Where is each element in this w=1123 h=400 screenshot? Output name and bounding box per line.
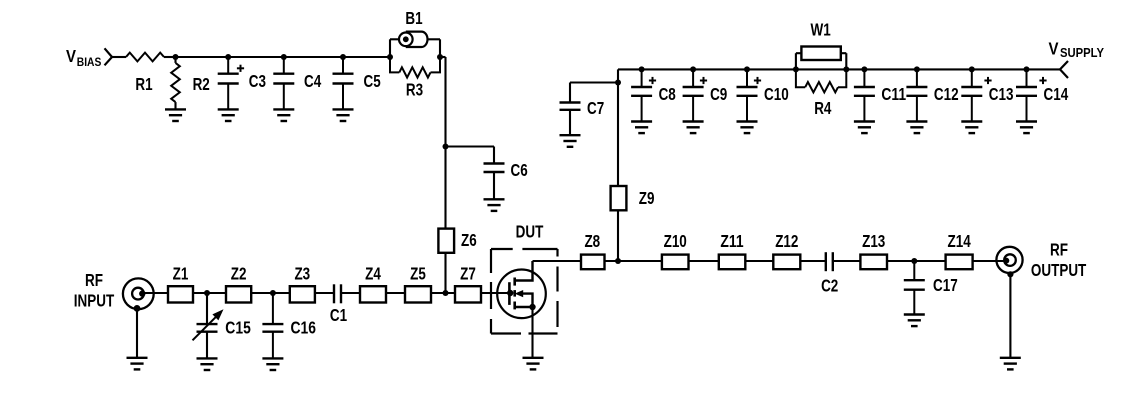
transmission line Z3 — [290, 286, 315, 302]
transmission line Z11 — [719, 255, 746, 270]
label C17 — [933, 275, 958, 295]
capacitor C9 — [683, 69, 704, 133]
capacitor C8 — [631, 69, 652, 133]
capacitor C5 — [333, 57, 354, 121]
wire supply vertical down to output line — [617, 69, 619, 261]
svg-text:Z8: Z8 — [584, 231, 600, 251]
label DUT — [516, 222, 544, 242]
svg-text:Z12: Z12 — [775, 231, 798, 251]
ground RF INPUT — [127, 358, 148, 370]
wire RF INPUT shield to ground — [134, 305, 141, 358]
node junction C16 — [270, 290, 276, 296]
label Z1 — [173, 263, 189, 283]
wire source to ground — [531, 307, 533, 358]
svg-text:C17: C17 — [933, 275, 958, 295]
wire Z12 to C2 — [800, 260, 826, 262]
node junction source — [529, 304, 535, 310]
transistor Q1 drain — [515, 261, 533, 281]
node junction C13 — [969, 66, 975, 72]
capacitor C14 — [1016, 69, 1037, 133]
svg-text:C8: C8 — [659, 84, 676, 104]
label R1 — [135, 74, 152, 94]
wire Z2 to Z3 — [251, 292, 290, 294]
wire W1 left leg — [796, 53, 802, 69]
svg-text:V: V — [1049, 39, 1059, 59]
label Z3 — [294, 263, 310, 283]
svg-text:C7: C7 — [587, 98, 604, 118]
wire Z13 to Z14 — [887, 260, 946, 262]
svg-text:R4: R4 — [814, 98, 831, 118]
variable capacitor C15 — [193, 293, 224, 358]
wire drain to Z8 — [533, 260, 582, 262]
ferrite bead B1 — [399, 32, 428, 47]
resistor R2 — [171, 57, 180, 109]
capacitor C10 — [737, 69, 758, 133]
svg-text:R3: R3 — [406, 80, 423, 100]
label C16 — [291, 318, 317, 338]
wire Z10 to Z11 — [689, 260, 719, 262]
node junction C12 — [914, 66, 920, 72]
svg-text:C9: C9 — [710, 84, 727, 104]
wire Z14 to RF OUTPUT — [973, 260, 1007, 262]
node junction C9 — [690, 66, 696, 72]
capacitor C4 — [273, 57, 294, 121]
transmission line Z2 — [226, 286, 251, 302]
transmission line Z5 — [405, 286, 431, 302]
label Z9 — [639, 188, 655, 208]
polarity plus C13 — [984, 77, 991, 84]
wire to C6 — [446, 145, 495, 147]
ground C3 — [0, 0, 1, 1]
svg-text:Z10: Z10 — [664, 231, 687, 251]
DUT dashed box — [491, 249, 558, 334]
transmission line Z12 — [773, 255, 800, 270]
ground RF OUTPUT — [1000, 358, 1021, 370]
node junction C14 — [1024, 66, 1030, 72]
capacitor C13 — [961, 69, 982, 133]
node junction C17 — [911, 258, 917, 264]
label C7 — [587, 98, 604, 118]
wire Z8 to Z10 — [605, 260, 662, 262]
wire Z1 to Z2 — [193, 292, 226, 294]
wire Z4 to Z5 — [386, 292, 405, 294]
transmission line Z9 — [611, 186, 627, 210]
terminal V_SUPPLY chevron — [1060, 61, 1068, 78]
transmission line Z8 — [581, 255, 605, 270]
capacitor C7 — [560, 83, 581, 147]
label R3 — [406, 80, 423, 100]
label C3 — [249, 71, 266, 91]
svg-text:INPUT: INPUT — [74, 291, 115, 311]
wire bias rail node to B1 — [176, 56, 391, 58]
node junction C5 — [340, 54, 346, 60]
svg-text:C15: C15 — [225, 318, 251, 338]
svg-text:C16: C16 — [291, 318, 317, 338]
node junction C3 — [225, 54, 231, 60]
label RF INPUT — [74, 270, 115, 311]
transmission line Z6 — [438, 229, 454, 253]
node junction Z9 supply feed — [615, 258, 621, 264]
capacitor C16 — [262, 293, 283, 370]
svg-text:C2: C2 — [821, 276, 838, 296]
capacitor C3 — [218, 57, 239, 121]
svg-text:C6: C6 — [511, 160, 528, 180]
wire B1 right leg — [428, 39, 441, 57]
label C13 — [989, 84, 1014, 104]
label C12 — [934, 84, 959, 104]
svg-text:Z14: Z14 — [948, 231, 971, 251]
svg-text:C13: C13 — [989, 84, 1014, 104]
ground DUT source — [523, 358, 544, 370]
label C10 — [764, 84, 789, 104]
svg-text:C4: C4 — [304, 71, 321, 91]
node junction Z6 bias feed — [443, 290, 449, 296]
node junction B1 right — [437, 54, 443, 60]
svg-text:Z5: Z5 — [410, 263, 426, 283]
wire Z3 to C1 — [315, 292, 334, 294]
transistor Q1 channel — [513, 278, 516, 310]
label Z12 — [775, 231, 798, 251]
transistor Q1 body circle — [497, 270, 546, 319]
polarity plus C10 — [754, 77, 761, 84]
wire bias vertical down to RF line — [444, 57, 446, 293]
svg-text:C11: C11 — [881, 84, 906, 104]
terminal V_BIAS input chevron — [105, 48, 113, 65]
label Z14 — [948, 231, 971, 251]
label R2 — [193, 74, 210, 94]
label C8 — [659, 84, 676, 104]
label W1 — [811, 20, 831, 40]
svg-text:C5: C5 — [364, 71, 381, 91]
label C14 — [1044, 84, 1069, 104]
label RF OUTPUT — [1031, 240, 1087, 281]
label Z7 — [460, 263, 476, 283]
svg-text:R2: R2 — [193, 74, 210, 94]
svg-text:C12: C12 — [934, 84, 959, 104]
wire V_BIAS to R1 — [112, 56, 126, 58]
wire Z11 to Z12 — [745, 260, 773, 262]
svg-text:Z2: Z2 — [231, 263, 247, 283]
node junction C11 — [861, 66, 867, 72]
resistor R3 — [390, 57, 440, 78]
capacitor C1 — [334, 284, 341, 303]
svg-text:RF: RF — [1050, 240, 1068, 260]
label Z11 — [720, 231, 743, 251]
wire C2 to Z13 — [833, 260, 861, 262]
svg-text:OUTPUT: OUTPUT — [1031, 260, 1087, 280]
node junction B1 left — [387, 54, 393, 60]
transmission line Z10 — [662, 255, 689, 270]
svg-text:Z3: Z3 — [294, 263, 310, 283]
wire supply rail — [618, 68, 1060, 70]
resistor R1 — [126, 53, 164, 62]
ground C15 — [197, 358, 218, 370]
label Z5 — [410, 263, 426, 283]
label Z13 — [862, 231, 885, 251]
transmission line Z4 — [360, 286, 386, 302]
wire R1 to node — [164, 56, 176, 58]
label C6 — [511, 160, 528, 180]
wire to C7 — [570, 81, 618, 83]
node junction C8 — [639, 66, 645, 72]
svg-text:Z4: Z4 — [365, 263, 381, 283]
label Z4 — [365, 263, 381, 283]
capacitor C17 — [904, 261, 925, 326]
wire RF OUTPUT shield to ground — [1007, 271, 1013, 358]
capacitor C2 — [826, 252, 833, 271]
svg-text:C1: C1 — [330, 305, 347, 325]
wire C1 to Z4 — [341, 292, 360, 294]
svg-text:C3: C3 — [249, 71, 266, 91]
transmission line Z7 — [455, 286, 481, 302]
polarity plus C9 — [700, 77, 707, 84]
transmission line Z13 — [860, 255, 887, 270]
svg-text:Z11: Z11 — [720, 231, 743, 251]
node junction gate — [507, 290, 513, 296]
ground R2 — [165, 109, 186, 121]
node junction C15 — [204, 290, 210, 296]
label C5 — [364, 71, 381, 91]
svg-text:DUT: DUT — [516, 222, 544, 242]
capacitor C12 — [906, 69, 927, 133]
svg-text:BIAS: BIAS — [77, 57, 102, 69]
node junction R2 — [173, 54, 179, 60]
jumper W1 — [801, 47, 840, 61]
capacitor C11 — [854, 69, 875, 133]
label B1 — [405, 8, 422, 28]
label V_BIAS — [66, 46, 102, 69]
label C9 — [710, 84, 727, 104]
svg-text:Z13: Z13 — [862, 231, 885, 251]
label Z6 — [461, 230, 477, 250]
node junction C7 branch — [615, 80, 621, 86]
polarity plus C3 — [237, 65, 244, 72]
transistor Q1 body-source tie — [515, 290, 533, 307]
svg-text:SUPPLY: SUPPLY — [1060, 46, 1105, 60]
polarity plus C14 — [1039, 77, 1046, 84]
transmission line Z14 — [946, 255, 973, 270]
connector RF INPUT — [123, 278, 154, 309]
label C15 — [225, 318, 251, 338]
transistor Q1 source — [515, 306, 533, 308]
node junction W1 left — [793, 66, 799, 72]
node junction C6 branch — [443, 144, 449, 150]
wire B1 left leg — [390, 39, 399, 57]
svg-text:Z7: Z7 — [460, 263, 476, 283]
label V_SUPPLY — [1049, 39, 1105, 61]
svg-text:Z9: Z9 — [639, 188, 655, 208]
label R4 — [814, 98, 831, 118]
connector RF OUTPUT — [996, 247, 1022, 273]
svg-text:W1: W1 — [811, 20, 831, 40]
svg-text:Z1: Z1 — [173, 263, 189, 283]
svg-text:R1: R1 — [135, 74, 152, 94]
wire B1 node jog to vertical — [440, 56, 446, 58]
svg-text:V: V — [66, 46, 76, 66]
capacitor C6 — [484, 147, 505, 211]
node junction C4 — [281, 54, 287, 60]
label C11 — [881, 84, 906, 104]
polarity plus C8 — [649, 77, 656, 84]
svg-text:B1: B1 — [405, 8, 422, 28]
label Z2 — [231, 263, 247, 283]
transistor Q1 gate bar — [508, 282, 511, 305]
svg-text:C14: C14 — [1044, 84, 1069, 104]
svg-text:RF: RF — [85, 270, 103, 290]
wire W1 right leg — [841, 53, 847, 69]
wire Z5 to Z7 — [431, 292, 455, 294]
node junction C10 — [744, 66, 750, 72]
resistor R4 — [796, 69, 846, 92]
svg-text:Z6: Z6 — [461, 230, 477, 250]
svg-text:C10: C10 — [764, 84, 789, 104]
label Z8 — [584, 231, 600, 251]
wire Z7 to DUT gate — [481, 292, 510, 294]
label C4 — [304, 71, 321, 91]
label Z10 — [664, 231, 687, 251]
transmission line Z1 — [168, 286, 193, 302]
node junction W1 right — [843, 66, 849, 72]
wire connector to Z1 — [142, 292, 169, 294]
label C1 — [330, 305, 347, 325]
label C2 — [821, 276, 838, 296]
